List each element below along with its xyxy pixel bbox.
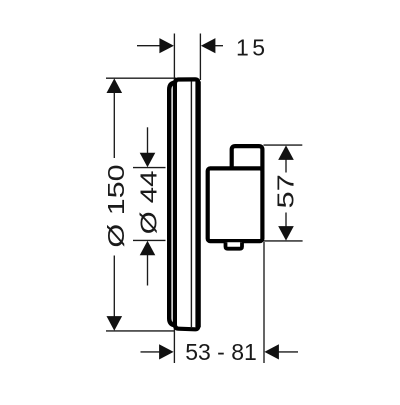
svg-text:53 - 81: 53 - 81 [185, 339, 257, 365]
knob body [208, 168, 263, 241]
dim line 57 lower segment [285, 213, 287, 228]
extension line left of dim 15 / plate front inner line [173, 34, 175, 364]
dim line 53-81 left segment [141, 351, 161, 353]
extension tick bottom of dim 57 [264, 240, 303, 242]
arrow 44 bottom (points up) [140, 241, 156, 256]
dim line 150 lower segment [113, 256, 115, 319]
extension line right of dim 15 [199, 34, 201, 81]
plate outer front face line [169, 82, 175, 325]
knob bottom tab [226, 242, 243, 248]
svg-text:Ø 150: Ø 150 [104, 164, 129, 247]
dim line 15 right segment [214, 45, 223, 47]
svg-text:Ø 44: Ø 44 [136, 170, 162, 234]
extension line right of dim 53-81 [263, 242, 265, 363]
arrow 57 top (points up) [278, 145, 294, 160]
arrow 53-81 left (points right) [159, 344, 174, 359]
extension tick bottom of dim 150 [106, 330, 174, 332]
arrow 44 top (points down) [140, 153, 156, 168]
wire [106, 34, 303, 364]
extension tick bottom of dim 44 [133, 239, 166, 241]
arrow 15 left (points right) [159, 38, 174, 53]
knob top step [232, 146, 263, 170]
escutcheon plate side profile (inner face, top, back, bottom) [175, 79, 199, 329]
plate back face (thicker) [195, 82, 200, 328]
plate inner edge line [190, 81, 192, 328]
arrow 53-81 right (points left) [264, 344, 279, 359]
extension tick top of dim 57 [264, 144, 303, 146]
node arrowheads [107, 38, 294, 359]
dim line 15 left segment [137, 45, 161, 47]
dim line 53-81 right segment [278, 351, 298, 353]
svg-text:57: 57 [272, 174, 298, 208]
arrow 57 bottom (points down) [278, 226, 294, 241]
svg-text:15: 15 [236, 34, 269, 60]
extension tick top of dim 44 [133, 167, 166, 169]
arrow 150 bottom (points down) [107, 316, 123, 331]
arrow 150 top (points up) [107, 78, 123, 93]
dim line 150 upper segment [113, 91, 115, 158]
extension tick top of dim 150 [106, 77, 176, 79]
dim line 57 upper segment [285, 159, 287, 173]
dim line 44 lower segment [147, 255, 149, 286]
arrow 15 right (points left) [201, 38, 216, 53]
dim line 44 upper segment [147, 127, 149, 154]
